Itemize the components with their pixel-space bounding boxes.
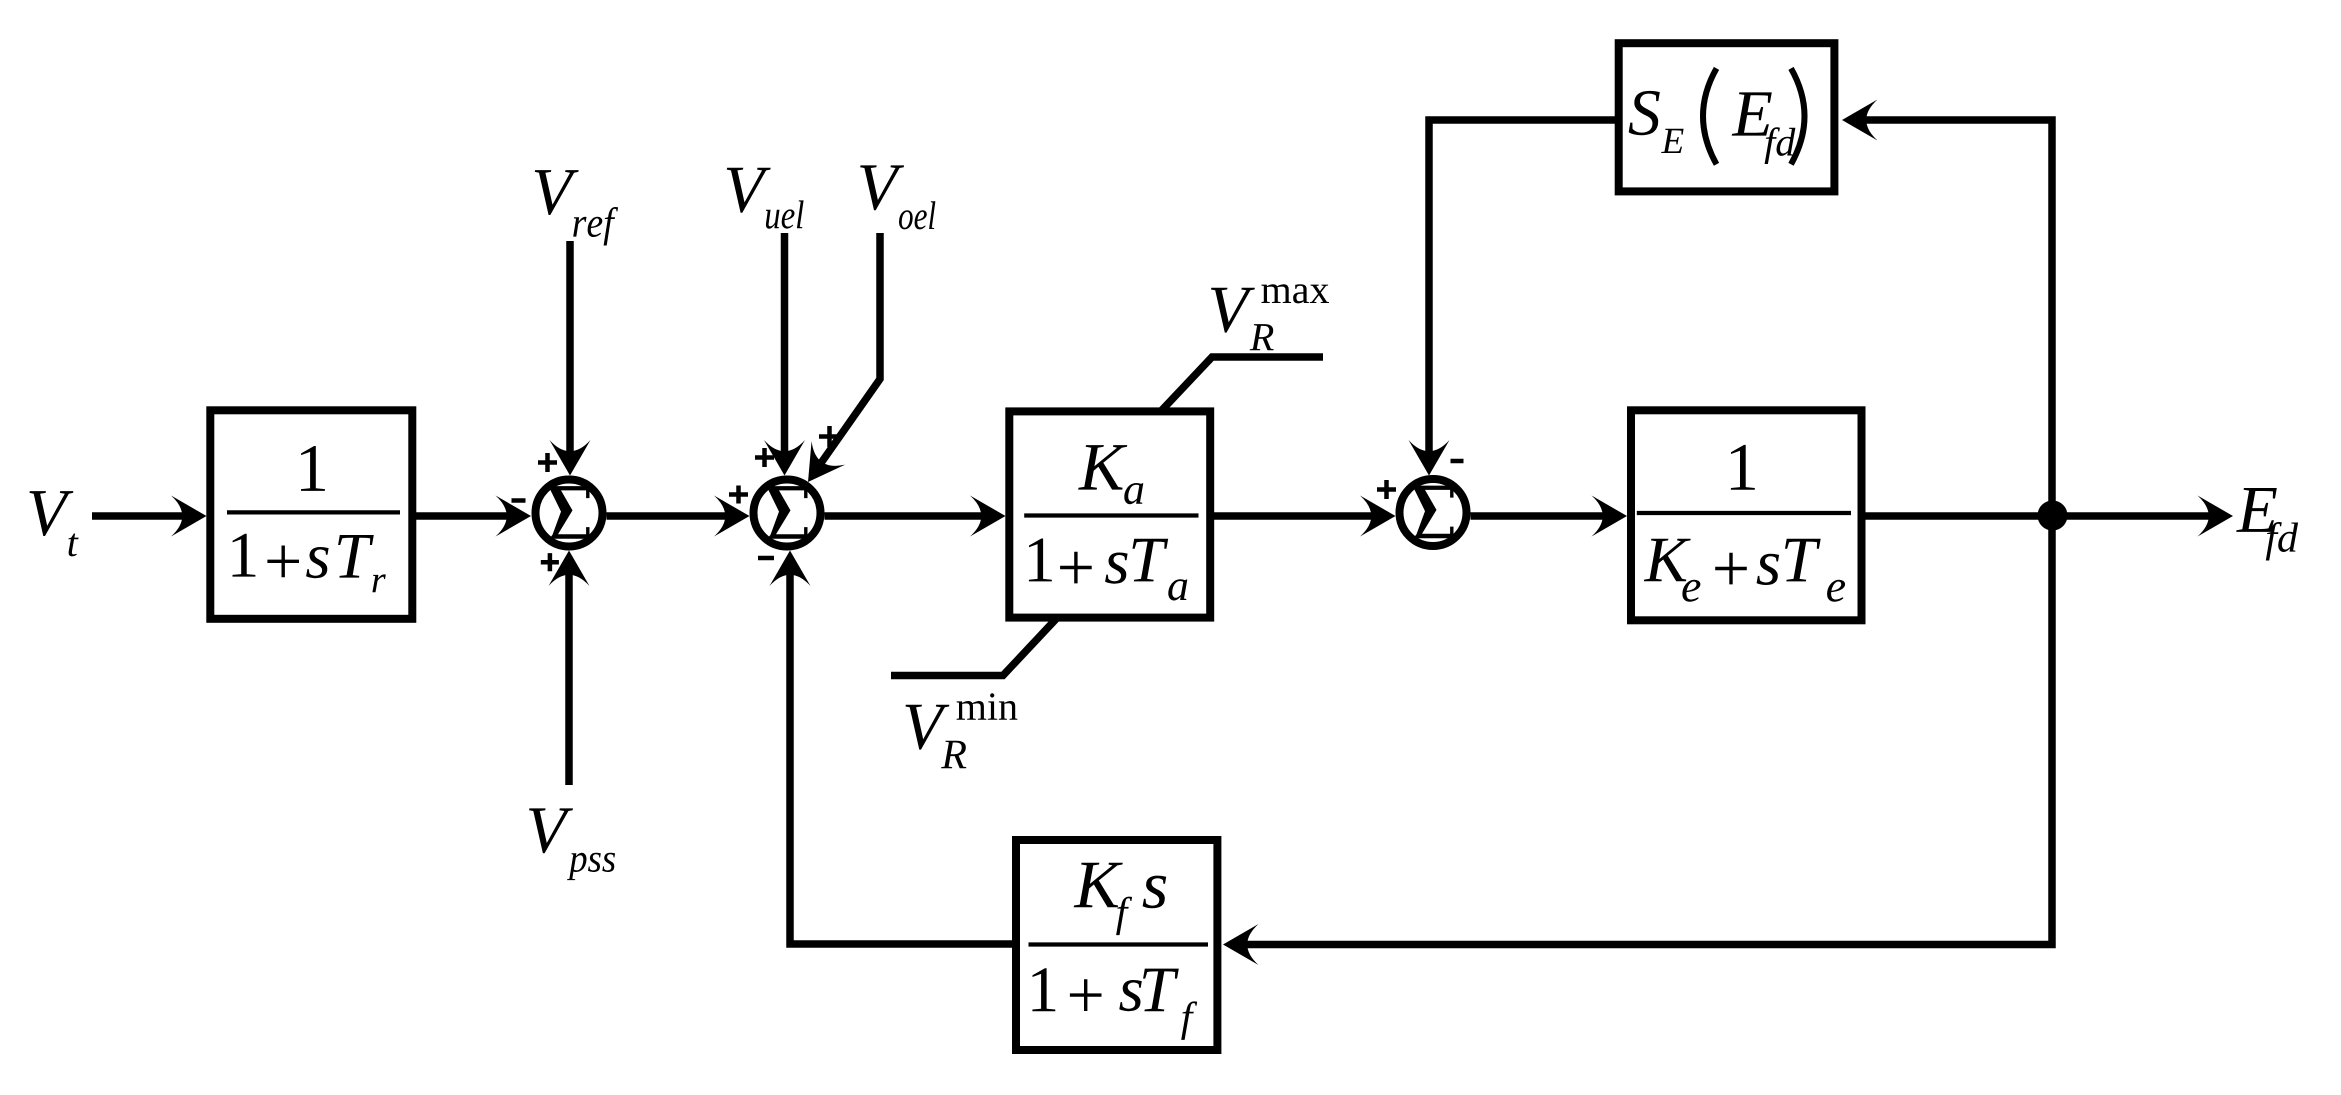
wire Vref into S1 [566, 241, 574, 455]
wire output node down to Kf block [1243, 516, 2052, 945]
node junction dot [2038, 501, 2068, 531]
summing junction S2 [754, 480, 821, 547]
block text 1/(Ke+sTe) [1731, 445, 1755, 490]
sigma glyph S3 [1413, 486, 1454, 539]
block Ka/(1+sTa) [1009, 411, 1210, 617]
sign plus at S2 west input [729, 486, 748, 504]
label Voel [860, 165, 904, 210]
label VRmax limit [1211, 288, 1255, 333]
wire Vpss into S1 [565, 570, 573, 785]
left parenthesis in SE block [1703, 68, 1717, 164]
wire S2 to block Ka [825, 512, 986, 520]
block 1/(Ke+sTe) [1631, 410, 1862, 620]
block text SE(Efd) [1629, 91, 1660, 135]
wire Vuel into S2 [781, 233, 789, 455]
sigma glyph S2 [767, 486, 808, 539]
output label Efd [2236, 488, 2277, 532]
sign plus at S2 north input [755, 448, 774, 467]
wire Kf block to summer2 [790, 570, 1012, 944]
label Vref [535, 170, 579, 215]
summing junction S1 [536, 480, 603, 547]
block SE(Efd) [1619, 43, 1835, 191]
sign minus at S3 northeast [1451, 459, 1464, 464]
sigma glyph S1 [549, 486, 590, 539]
wire block1 to summer1 [416, 512, 511, 520]
block Kf s/(1+sTf) [1016, 840, 1217, 1050]
block1 text 1/(1+sTr) [301, 446, 325, 491]
sign plus at S1 south input [541, 553, 559, 571]
sign plus at S1 north input [538, 453, 557, 472]
sign plus at S3 west input [1377, 480, 1396, 499]
wire Voel with bend into S2 [814, 233, 880, 473]
limit VRmin callout line [891, 619, 1056, 676]
wire SE block to summer3 [1429, 120, 1615, 455]
sign minus at S1 west input [512, 498, 526, 503]
wire Ke block to output node [1865, 512, 2052, 520]
summing junction S3 [1400, 479, 1467, 546]
wire S3 to block Ke [1471, 512, 1608, 520]
limit VRmax callout line [1162, 357, 1323, 410]
label Vuel [727, 168, 771, 213]
wire output to Efd [2052, 512, 2213, 520]
wire Ka to summer3 [1214, 512, 1375, 520]
sign plus at S2 northeast input [819, 426, 840, 447]
label Vpss [529, 808, 573, 853]
input label Vt [30, 491, 74, 536]
right parenthesis in SE block [1791, 68, 1805, 164]
block text Kf s/(1+sTf) [1074, 863, 1123, 908]
label VRmin limit [906, 705, 950, 750]
block 1/(1+sTr) [210, 410, 412, 619]
wire output node up into SE block [1862, 120, 2052, 516]
sign minus at S2 south input [758, 556, 774, 561]
wire Vt input into block 1 [92, 512, 186, 520]
block text Ka/(1+sTa) [1078, 445, 1127, 490]
wire S1 to summer2 [607, 512, 730, 520]
